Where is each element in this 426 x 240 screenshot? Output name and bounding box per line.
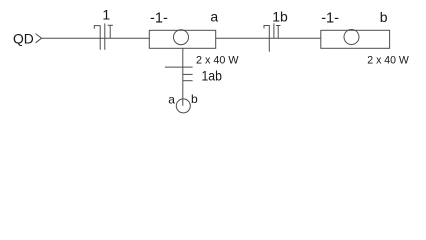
svg-text:2 x 40 W: 2 x 40 W	[367, 55, 409, 67]
svg-text:-1-: -1-	[321, 11, 339, 27]
svg-text:a: a	[210, 8, 218, 24]
svg-text:b: b	[380, 9, 388, 25]
svg-text:2 x 40 W: 2 x 40 W	[196, 54, 239, 66]
svg-text:QD: QD	[13, 31, 34, 47]
svg-text:a: a	[168, 92, 175, 106]
svg-text:-1-: -1-	[150, 11, 168, 27]
svg-text:b: b	[191, 92, 198, 106]
svg-text:1: 1	[102, 6, 110, 22]
svg-text:1b: 1b	[272, 8, 288, 24]
svg-text:1ab: 1ab	[202, 67, 223, 83]
